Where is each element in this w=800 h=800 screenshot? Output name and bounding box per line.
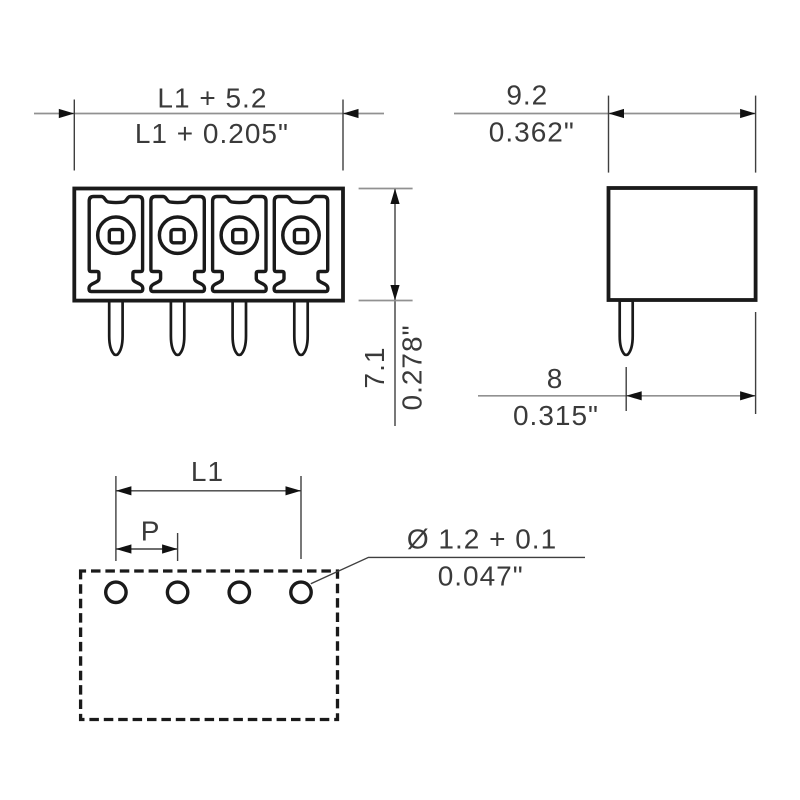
front view: connector housing body (74, 189, 343, 301)
dimension text "L1" (191, 456, 224, 487)
bottom view: hole 4 (291, 582, 311, 602)
side view: housing body (609, 188, 756, 300)
arrowhead pointing left at hole 1 axis (116, 486, 131, 495)
dimension text "7.1" (rotated) (359, 347, 390, 389)
extension line right of housing (342, 100, 344, 171)
dimension text "8" (547, 363, 564, 394)
extension line left of side housing (608, 96, 610, 173)
dimension line "9.2" (top right) (454, 113, 756, 115)
dimension text "9.2" (506, 79, 548, 110)
front view: contact pocket 4 (274, 197, 328, 292)
svg-text:7.1: 7.1 (359, 347, 390, 389)
svg-text:8: 8 (547, 363, 564, 394)
front view: pin 3 lead (233, 301, 246, 355)
arrowhead pointing right at side housing right (740, 109, 756, 118)
arrowhead pointing down (390, 285, 399, 301)
svg-text:P: P (141, 516, 161, 547)
svg-text:0.047": 0.047" (438, 560, 524, 591)
svg-text:L1 + 5.2: L1 + 5.2 (157, 83, 267, 114)
front view: pin 1 lead (109, 301, 122, 355)
extension line below side housing right (755, 312, 757, 414)
front view: contact square 1 (109, 230, 122, 243)
arrowhead pointing right at hole 4 axis (286, 486, 302, 495)
dimension line "8" (below side view) (478, 395, 756, 397)
front view: contact pocket 3 (212, 197, 266, 292)
extension line at housing bottom right (359, 300, 413, 302)
arrowhead at right extension pointing left (343, 109, 359, 118)
arrowhead pointing right at hole 2 axis (pitch) (162, 544, 178, 553)
front view: contact square 4 (294, 230, 307, 243)
dimension text "L1 + 0.205 inch" (135, 118, 289, 149)
arrowhead pointing left at pin axis (626, 391, 642, 400)
svg-text:0.362": 0.362" (489, 117, 575, 148)
dimension line "P" (pitch) (116, 548, 178, 550)
extension line at hole 1 axis (115, 476, 117, 561)
dimension text "L1 + 5.2" (157, 83, 267, 114)
arrowhead pointing left at hole 1 axis (pitch) (116, 544, 131, 553)
extension line right of side housing (755, 96, 757, 173)
front view: contact ring 1 (98, 217, 134, 253)
svg-text:L1 + 0.205": L1 + 0.205" (135, 118, 289, 149)
side view: pin lead (620, 301, 633, 355)
dimension text "0.278 inch" (rotated) (397, 324, 428, 410)
extension line at hole 2 axis (177, 533, 179, 561)
svg-text:0.278": 0.278" (397, 324, 428, 410)
svg-text:Ø 1.2 + 0.1: Ø 1.2 + 0.1 (407, 524, 557, 555)
dimension text "P" (141, 516, 161, 547)
dimension line "L1" (bottom view) (116, 490, 301, 492)
extension line at hole 4 axis (300, 476, 302, 559)
dimension text "0.315 inch" (513, 400, 599, 431)
svg-text:0.315": 0.315" (513, 400, 599, 431)
leader line from hole 4 (311, 557, 585, 583)
front view: pin 4 lead (294, 301, 307, 355)
dimension text "0.047 inch" (438, 560, 524, 591)
front view: contact square 3 (233, 230, 246, 243)
arrowhead pointing up (390, 189, 399, 205)
front view: contact ring 2 (159, 217, 195, 253)
dimension text "diameter 1.2 + 0.1" (407, 524, 557, 555)
extension line at housing top right (359, 188, 413, 190)
dimension text "0.362 inch" (489, 117, 575, 148)
arrowhead pointing left at side housing left (609, 109, 625, 118)
extension line below side pin (625, 367, 627, 411)
extension line left of housing (73, 100, 75, 171)
front view: contact ring 4 (283, 217, 319, 253)
front view: contact ring 3 (221, 217, 257, 253)
front view: contact square 2 (171, 230, 184, 243)
front view: pin 2 lead (171, 301, 184, 355)
bottom view: hole 2 (167, 582, 187, 602)
bottom view: PCB outline (dashed) (81, 571, 338, 720)
bottom view: hole 1 (106, 582, 126, 602)
front view: contact pocket 1 (89, 197, 143, 292)
svg-text:L1: L1 (191, 456, 224, 487)
vertical dimension line "7.1" (right of front view) (394, 189, 396, 427)
arrowhead at left extension pointing right (59, 109, 75, 118)
dimension line "L1 + 5.2" (top left) (34, 113, 384, 115)
arrowhead pointing right at housing edge (740, 391, 756, 400)
bottom view: hole 3 (229, 582, 249, 602)
front view: contact pocket 2 (151, 197, 205, 292)
svg-text:9.2: 9.2 (506, 79, 548, 110)
